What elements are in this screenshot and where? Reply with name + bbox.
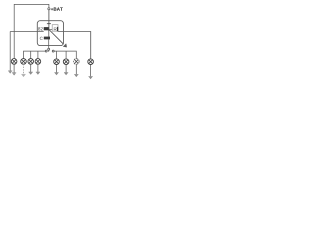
wire bus left segment with lamp drops — [24, 51, 46, 59]
wire lamp E to ground — [56, 64, 58, 72]
contact arm switch — [49, 29, 63, 43]
ground lamp G — [74, 74, 78, 77]
lamp F — [63, 59, 69, 65]
coil 82 bar — [44, 27, 49, 30]
wire lamp D to ground — [37, 64, 39, 72]
lamp H — [88, 59, 94, 65]
wire lamp H to ground — [90, 64, 92, 76]
lamp E — [54, 59, 60, 65]
wire terminal 82 to relay — [14, 31, 44, 33]
terminal connector right bus — [52, 50, 54, 52]
label C — [40, 37, 43, 40]
ground lamp C — [29, 72, 33, 75]
wire bus right segment with lamp drops — [54, 51, 76, 59]
wire lamp G to ground — [75, 64, 77, 74]
ground lamp B optional — [21, 74, 25, 77]
node junction stub left — [10, 31, 14, 33]
node junction dot — [48, 28, 50, 30]
ground left branch — [8, 71, 12, 74]
terminal connector left bus — [45, 50, 47, 52]
pin relay bottom with connector — [48, 39, 50, 48]
wire relay R terminal right branch to lamp H — [58, 32, 91, 60]
relay U1 flasher box — [37, 21, 63, 46]
wire line down to lamp A — [13, 32, 15, 59]
pin + mark — [47, 23, 51, 25]
resistor R terminal bar — [57, 27, 58, 31]
wire lamp A to ground — [13, 64, 15, 73]
wire dot to R box — [50, 29, 52, 31]
wire lamp C to ground — [30, 64, 32, 72]
contact bar C — [44, 37, 50, 40]
ground lamp F — [64, 73, 68, 76]
lamp B — [21, 59, 27, 65]
wire +BAT feed: top horizontal and left drop — [14, 4, 49, 31]
ground lamp E — [54, 73, 58, 76]
ground lamp D — [36, 72, 40, 75]
label 82 — [38, 27, 40, 30]
ground lamp A — [12, 73, 16, 76]
ground lamp H — [89, 77, 93, 80]
lamp A — [11, 59, 17, 65]
lamp D — [35, 59, 41, 65]
lamp C — [28, 59, 34, 65]
resistor R box — [52, 25, 58, 32]
terminal +BAT — [48, 8, 50, 10]
lamp G optional dashed — [74, 59, 80, 65]
ground contact arm — [63, 44, 68, 49]
wire lamp F to ground — [65, 64, 67, 72]
wire dashed lamp B to ground — [23, 64, 25, 74]
wire left branch to ground — [9, 32, 11, 71]
label R — [54, 28, 57, 31]
wire +BAT down to relay top pin — [48, 10, 50, 29]
wire center column to contact bar C — [48, 29, 50, 36]
